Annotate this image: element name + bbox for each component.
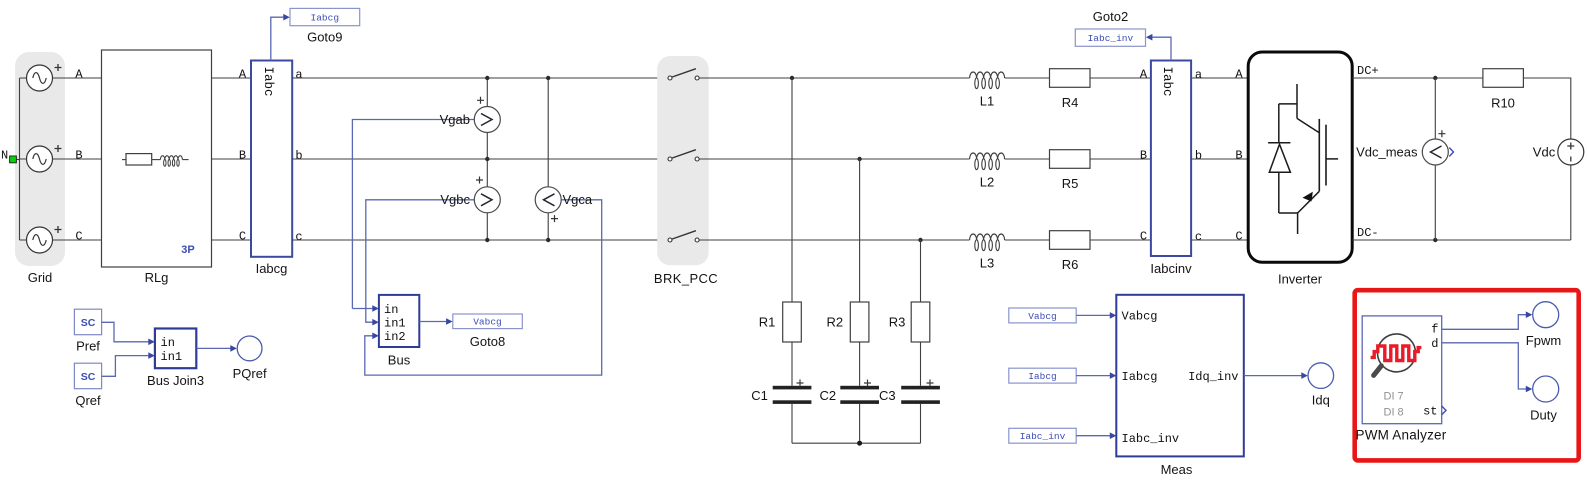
output port Idq — [1308, 363, 1334, 389]
label Pref — [76, 339, 100, 354]
svg-text:Iabcg: Iabcg — [1028, 371, 1057, 382]
svg-text:SC: SC — [81, 317, 96, 329]
AC source Va — [27, 64, 62, 91]
port label C inverter — [1235, 229, 1242, 243]
label L2 — [980, 175, 994, 190]
svg-text:Iabcg: Iabcg — [256, 261, 288, 276]
svg-text:a: a — [295, 68, 302, 82]
resistor R5 — [1050, 150, 1091, 169]
port label C Iabcinv — [1140, 229, 1147, 243]
svg-text:DC-: DC- — [1357, 226, 1379, 240]
label PQref — [233, 366, 267, 381]
constant block Pref — [74, 309, 101, 335]
svg-text:Iabc_inv: Iabc_inv — [1088, 33, 1134, 44]
output port PQref — [237, 336, 262, 361]
highlight red box — [1355, 290, 1579, 460]
label Meas — [1161, 462, 1193, 477]
wire DC- rail — [1352, 239, 1571, 241]
wire Iabcg b to breaker — [292, 158, 668, 160]
voltmeter Vgca — [535, 187, 561, 222]
constant block Qref — [74, 363, 101, 389]
inductor L2 — [970, 153, 1005, 170]
svg-text:B: B — [1140, 148, 1147, 162]
label Idq — [1312, 393, 1330, 408]
svg-text:Meas: Meas — [1161, 462, 1193, 477]
DC source Vdc — [1558, 139, 1584, 165]
port label st — [1423, 404, 1437, 418]
label L3 — [980, 256, 994, 271]
svg-text:R10: R10 — [1491, 96, 1515, 111]
inductor inside RLg — [160, 156, 188, 167]
svg-text:Vabcg: Vabcg — [1122, 310, 1158, 324]
svg-text:Iabc_inv: Iabc_inv — [1122, 432, 1180, 446]
inverter internal bottom lead — [1279, 213, 1298, 234]
label Bus — [388, 353, 411, 368]
svg-text:DI 8: DI 8 — [1384, 406, 1404, 418]
svg-text:Vabcg: Vabcg — [473, 317, 502, 328]
voltmeter Vgbc — [474, 177, 500, 213]
wire Iabcinv b to inverter — [1191, 158, 1248, 160]
AC source Vc — [27, 226, 62, 253]
svg-text:N: N — [1, 149, 8, 163]
svg-text:3P: 3P — [181, 244, 194, 256]
label Vdc — [1533, 144, 1556, 159]
port label B Iabcinv — [1140, 148, 1147, 162]
wire grid neutral bus — [17, 78, 27, 240]
wire R6 to Iabcinv — [1090, 239, 1151, 241]
wire R10 to Vdc — [1523, 78, 1570, 139]
svg-text:R6: R6 — [1062, 257, 1079, 272]
svg-text:in: in — [161, 336, 175, 350]
port label a Iabcinv — [1195, 68, 1202, 82]
wire A to R1 — [791, 78, 793, 302]
svg-text:f: f — [1431, 322, 1438, 336]
junction dot A-Vgca — [546, 76, 550, 80]
breaker switch phase b — [668, 150, 699, 161]
svg-text:Idq_inv: Idq_inv — [1188, 370, 1238, 384]
svg-text:R3: R3 — [889, 314, 906, 329]
wire grid A to RLg — [53, 77, 102, 79]
svg-text:b: b — [1195, 149, 1202, 163]
magnifier icon PWM — [1371, 334, 1422, 376]
svg-text:Vabcg: Vabcg — [1028, 311, 1057, 322]
label Fpwm — [1526, 333, 1561, 348]
port label B inverter — [1235, 148, 1242, 162]
capacitor C3 — [901, 380, 940, 404]
AC source Vb — [27, 145, 62, 172]
junction dot A-R1 — [790, 76, 794, 80]
label Vgbc — [440, 192, 470, 207]
wire R3 to C3 — [920, 342, 922, 386]
wire f to Fpwm — [1442, 311, 1533, 329]
current sensor block Iabcinv — [1151, 61, 1191, 257]
label R6 — [1062, 257, 1079, 272]
label L1 — [980, 94, 994, 109]
svg-text:BRK_PCC: BRK_PCC — [654, 271, 718, 286]
resistor R6 — [1050, 231, 1091, 250]
svg-text:PWM Analyzer: PWM Analyzer — [1356, 427, 1447, 442]
junction dot DC+ Vdcmeas — [1433, 76, 1437, 80]
resistor R3 — [911, 302, 930, 342]
resistor R1 — [783, 302, 802, 342]
svg-text:SC: SC — [81, 371, 96, 383]
inductor L3 — [970, 234, 1005, 251]
svg-text:in1: in1 — [384, 317, 406, 331]
wire RLg C to Iabcg — [212, 239, 252, 241]
goto tag Goto9 — [290, 8, 360, 25]
wire Vgab output — [352, 120, 474, 312]
from tag Vabcg — [1009, 308, 1076, 323]
resistor R10 — [1483, 69, 1524, 88]
svg-text:A: A — [75, 67, 83, 81]
wire grid B to RLg — [53, 158, 102, 160]
svg-text:b: b — [295, 149, 302, 163]
breaker background panel — [657, 56, 709, 265]
current sensor block Iabcg — [251, 61, 292, 257]
svg-text:Idq: Idq — [1312, 393, 1330, 408]
port label f — [1431, 322, 1438, 336]
svg-text:Vgbc: Vgbc — [440, 192, 470, 207]
label DI 8 — [1384, 406, 1404, 418]
label Iabcg — [256, 261, 288, 276]
svg-text:C: C — [1140, 229, 1147, 243]
svg-text:Iabcinv: Iabcinv — [1150, 261, 1192, 276]
svg-text:in2: in2 — [384, 330, 406, 344]
wire Vdc to DC- — [1570, 165, 1572, 240]
label DI 7 — [1384, 390, 1404, 402]
port label c Iabcinv — [1195, 230, 1202, 244]
output port Fpwm — [1533, 302, 1559, 328]
svg-text:RLg: RLg — [145, 270, 169, 285]
label Goto8 — [470, 334, 505, 349]
svg-text:st: st — [1423, 404, 1437, 418]
junction dot B-R2 — [857, 157, 861, 161]
junction dot RC bottom — [857, 441, 862, 446]
wire breaker b to L2 — [699, 158, 970, 160]
node N green marker — [10, 156, 17, 163]
capacitor C1 — [773, 380, 812, 404]
svg-text:c: c — [295, 230, 302, 244]
resistor R4 — [1050, 69, 1091, 88]
junction dot B-Vgab — [485, 157, 489, 161]
wire breaker c to L3 — [699, 239, 970, 241]
svg-text:Bus: Bus — [388, 353, 411, 368]
label Vgca — [563, 192, 593, 207]
port label DC- — [1357, 226, 1379, 240]
svg-text:C3: C3 — [879, 388, 896, 403]
goto tag Goto2 — [1075, 29, 1145, 46]
resistor inside RLg — [122, 154, 160, 165]
wire Vdc_meas column — [1434, 78, 1436, 240]
label R4 — [1062, 95, 1079, 110]
svg-text:C2: C2 — [819, 388, 836, 403]
svg-text:A: A — [239, 67, 247, 81]
wire B to R2 — [859, 159, 861, 302]
svg-text:Inverter: Inverter — [1278, 272, 1323, 287]
svg-text:R4: R4 — [1062, 95, 1079, 110]
svg-text:Vgab: Vgab — [440, 112, 470, 127]
wire L1 to R4 — [1005, 77, 1050, 79]
voltmeter Vgab — [474, 97, 500, 133]
port label A inverter — [1235, 67, 1243, 81]
svg-text:c: c — [1195, 230, 1202, 244]
wire L2 to R5 — [1005, 158, 1050, 160]
junction dot DC- Vdcmeas — [1433, 238, 1437, 242]
svg-text:B: B — [239, 148, 246, 162]
wire Iabcinv c to inverter — [1191, 239, 1248, 241]
wire Bus to Goto8 — [419, 318, 452, 325]
from tag Iabc_inv — [1009, 428, 1076, 443]
svg-text:Duty: Duty — [1530, 407, 1557, 422]
diode D inside inverter — [1268, 104, 1290, 213]
label Vgab — [440, 112, 470, 127]
wire L3 to R6 — [1005, 239, 1050, 241]
port label B grid — [75, 148, 82, 162]
wire Iabcinv a to inverter — [1191, 77, 1248, 79]
wire C to R3 — [920, 240, 922, 302]
svg-text:R2: R2 — [826, 314, 843, 329]
wire R2 to C2 — [859, 342, 861, 386]
voltmeter Vdc_meas — [1422, 130, 1453, 165]
port label DC+ — [1357, 64, 1379, 78]
wire Iabcg to Goto9 — [271, 14, 290, 61]
label RLg — [145, 270, 169, 285]
wire Iabcg to Meas — [1076, 372, 1116, 379]
capacitor C2 — [840, 380, 879, 404]
wire Pref to Bus Join3 — [102, 322, 155, 345]
label C1 — [751, 388, 768, 403]
svg-text:B: B — [1235, 148, 1242, 162]
inverter internal top lead — [1279, 84, 1297, 118]
wire C3 down — [920, 404, 922, 443]
junction dot C-Vgca — [546, 238, 550, 242]
label Iabcinv — [1150, 261, 1192, 276]
goto tag Goto8 — [453, 314, 523, 329]
wire Vgbc output — [366, 200, 475, 326]
resistor R2 — [850, 302, 869, 342]
label R1 — [759, 314, 776, 329]
label R2 — [826, 314, 843, 329]
wire DC+ rail — [1352, 77, 1483, 79]
port label C grid — [75, 229, 82, 243]
svg-text:Iabcg: Iabcg — [311, 12, 340, 23]
wire RLg A to Iabcg — [212, 77, 252, 79]
label BRK_PCC — [654, 271, 718, 286]
svg-text:Vgca: Vgca — [563, 192, 593, 207]
svg-text:Goto8: Goto8 — [470, 334, 505, 349]
svg-text:d: d — [1431, 337, 1438, 351]
svg-text:DI 7: DI 7 — [1384, 390, 1404, 402]
label 3P — [181, 244, 194, 256]
from tag Iabcg — [1009, 368, 1076, 383]
wire Vgca output — [365, 200, 602, 375]
block Bus Join3 — [155, 329, 196, 369]
wire voltmeter column ab — [486, 78, 488, 240]
junction dot C-R3 — [918, 238, 922, 242]
wire d to Duty — [1442, 343, 1533, 393]
svg-text:Fpwm: Fpwm — [1526, 333, 1561, 348]
breaker switch phase c — [668, 231, 699, 242]
svg-text:C: C — [239, 229, 246, 243]
wire RLg B to Iabcg — [212, 158, 252, 160]
port label A grid — [75, 67, 83, 81]
svg-text:R5: R5 — [1062, 176, 1079, 191]
label R10 — [1491, 96, 1515, 111]
junction dot C-Vgbc — [485, 238, 489, 242]
grid background panel — [15, 52, 65, 266]
svg-text:Iabc: Iabc — [1160, 67, 1174, 97]
svg-text:A: A — [1235, 67, 1243, 81]
output port Duty — [1533, 376, 1559, 402]
wire Vabcg to Meas — [1076, 312, 1116, 319]
svg-text:DC+: DC+ — [1357, 64, 1379, 78]
IGBT Q inside inverter — [1297, 118, 1338, 213]
port label b Iabcinv — [1195, 149, 1202, 163]
label Grid — [28, 270, 53, 285]
wire C1 down — [791, 404, 793, 443]
label Inverter — [1278, 272, 1323, 287]
svg-text:L1: L1 — [980, 94, 994, 109]
wire R1 to C1 — [791, 342, 793, 386]
label Duty — [1530, 407, 1557, 422]
junction dot A-Vgab — [485, 76, 489, 80]
block Meas — [1116, 295, 1244, 457]
svg-text:Bus Join3: Bus Join3 — [147, 373, 204, 388]
block RLg — [102, 50, 212, 267]
port label A Iabcg — [239, 67, 247, 81]
svg-text:Vdc_meas: Vdc_meas — [1356, 144, 1418, 159]
svg-text:PQref: PQref — [233, 366, 267, 381]
node N label — [1, 149, 8, 163]
svg-text:Goto9: Goto9 — [307, 30, 342, 45]
svg-text:in: in — [384, 303, 398, 317]
port label a Iabcg — [295, 68, 302, 82]
wire C2 down — [859, 404, 861, 443]
port label d — [1431, 337, 1438, 351]
wire Qref to Bus Join3 — [102, 352, 155, 376]
wire RC common bottom — [792, 442, 921, 444]
svg-text:a: a — [1195, 68, 1202, 82]
label C3 — [879, 388, 896, 403]
svg-text:Goto2: Goto2 — [1093, 9, 1128, 24]
label C2 — [819, 388, 836, 403]
wire R5 to Iabcinv — [1090, 158, 1151, 160]
port marker st — [1442, 406, 1446, 415]
block Inverter — [1248, 52, 1352, 262]
svg-text:Vdc: Vdc — [1533, 144, 1556, 159]
label PWM Analyzer — [1356, 427, 1447, 442]
svg-text:C: C — [1235, 229, 1242, 243]
wire Iabc_inv to Meas — [1076, 432, 1116, 439]
port label b Iabcg — [295, 149, 302, 163]
wire breaker a to L1 — [699, 77, 970, 79]
wire grid C to RLg — [53, 239, 102, 241]
svg-text:B: B — [75, 148, 82, 162]
breaker switch phase a — [668, 69, 699, 80]
label R5 — [1062, 176, 1079, 191]
block Bus — [379, 295, 419, 347]
svg-text:Iabcg: Iabcg — [1122, 370, 1158, 384]
wire Iabcinv to Goto2 — [1146, 34, 1171, 61]
svg-text:Grid: Grid — [28, 270, 53, 285]
port label B Iabcg — [239, 148, 246, 162]
label Goto2 — [1093, 9, 1128, 24]
label Goto9 — [307, 30, 342, 45]
svg-text:Iabc_inv: Iabc_inv — [1020, 431, 1066, 442]
wire voltmeter column ca — [547, 78, 549, 240]
svg-text:Iabc: Iabc — [261, 67, 275, 97]
svg-text:A: A — [1140, 67, 1148, 81]
port label A Iabcinv — [1140, 67, 1148, 81]
label Vdc_meas — [1356, 144, 1418, 159]
wire Meas to Idq — [1244, 372, 1308, 379]
svg-text:Qref: Qref — [75, 393, 101, 408]
port label c Iabcg — [295, 230, 302, 244]
wire R4 to Iabcinv — [1090, 77, 1151, 79]
port label C Iabcg — [239, 229, 246, 243]
label Qref — [75, 393, 101, 408]
inductor L1 — [970, 72, 1005, 89]
block PWM Analyzer — [1362, 316, 1442, 424]
wire Iabcg c to breaker — [292, 239, 668, 241]
label R3 — [889, 314, 906, 329]
wire Bus Join3 to PQref — [196, 345, 237, 352]
svg-text:L3: L3 — [980, 256, 994, 271]
svg-text:L2: L2 — [980, 175, 994, 190]
svg-text:R1: R1 — [759, 314, 776, 329]
svg-text:C1: C1 — [751, 388, 768, 403]
svg-text:Pref: Pref — [76, 339, 100, 354]
wire Iabcg a to breaker — [292, 77, 668, 79]
label Bus Join3 — [147, 373, 204, 388]
svg-text:in1: in1 — [161, 350, 183, 364]
svg-text:C: C — [75, 229, 82, 243]
